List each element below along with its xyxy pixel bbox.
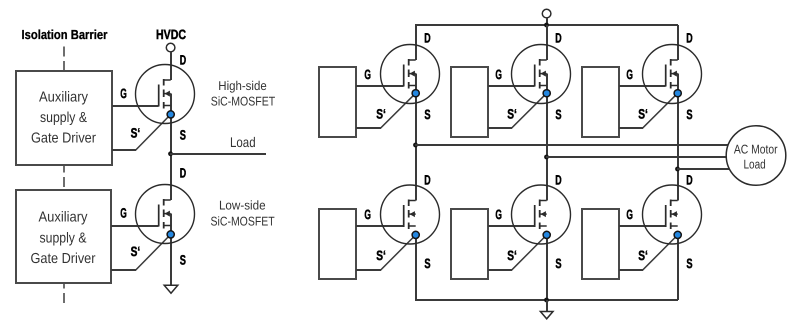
svg-text:S‘: S‘ [376, 106, 386, 121]
node: load junction [168, 151, 173, 156]
isolation barrier dashed line [63, 47, 65, 304]
wire: load output [170, 153, 266, 155]
svg-text:G: G [364, 67, 371, 82]
junction: DC+ on top rail [544, 23, 549, 28]
svg-text:S‘: S‘ [507, 106, 517, 121]
wire: Kelvin source S' of Q6 (diagonal) [511, 235, 546, 270]
gate driver box for Q5 (high side, phase B) [451, 67, 488, 137]
svg-text:SiC-MOSFET: SiC-MOSFET [211, 214, 275, 228]
gate driver box for Q8 (low side, phase C) [582, 209, 619, 279]
wire: top DC rail with corner drops [415, 25, 417, 60]
wire: Kelvin source S' of Q8 (horizontal) [619, 269, 643, 271]
wire: Kelvin source S' of Q7 (diagonal) [642, 93, 677, 128]
svg-text:S: S [424, 107, 430, 122]
svg-text:Load: Load [230, 134, 256, 150]
transistor Q4: low-side SiC-MOSFET phase A [381, 185, 440, 244]
wire: gate of Q4 [356, 225, 404, 227]
svg-text:S‘: S‘ [376, 248, 386, 263]
svg-text:Isolation Barrier: Isolation Barrier [22, 27, 108, 42]
node S' of Q2 (Kelvin source node, blue dot) [167, 231, 174, 238]
svg-text:S‘: S‘ [131, 126, 141, 141]
svg-text:High-side: High-side [218, 79, 266, 93]
svg-text:G: G [495, 67, 502, 82]
svg-text:S: S [686, 107, 692, 122]
svg-text:S: S [180, 128, 186, 143]
wire: Kelvin source S' of Q7 (horizontal) [619, 127, 643, 129]
wire: gate of Q8 [619, 225, 666, 227]
svg-text:Gate Driver: Gate Driver [31, 131, 96, 147]
svg-text:D: D [555, 173, 562, 188]
wire: U2 Kelvin source return to Q2 S' (horizontal) [111, 269, 136, 271]
gate driver U2: auxiliary supply & gate driver (low side) [16, 190, 111, 283]
wire: Kelvin source S' of Q5 (horizontal) [488, 127, 512, 129]
wire: phase A to AC motor [415, 144, 730, 146]
ground (left) [164, 285, 178, 293]
svg-text:Auxiliary: Auxiliary [39, 90, 89, 106]
wire: Kelvin source S' of Q3 (diagonal) [380, 93, 415, 128]
svg-text:S‘: S‘ [131, 244, 141, 259]
wire: DC+ terminal to top rail [546, 18, 548, 25]
wire: Q1 source down through Load node to Q2 drain [170, 94, 172, 200]
svg-text:S‘: S‘ [638, 248, 648, 263]
node S' of Q1 (Kelvin source node, blue dot) [167, 111, 174, 118]
wire: gate of Q7 [619, 85, 666, 87]
node S' of Q4 (Kelvin source node, blue dot) [412, 231, 419, 238]
junction: ground node on bottom rail [544, 298, 549, 303]
wire: Kelvin source S' of Q4 (diagonal) [380, 235, 415, 270]
svg-text:S: S [555, 107, 561, 122]
junction: phase B output node [544, 155, 549, 160]
wire: U2 Kelvin source return to Q2 S' (diagonal) [135, 234, 170, 270]
svg-text:D: D [555, 31, 562, 46]
wire: phase C mid-leg (source of Q7 to drain of Q8) [677, 74, 679, 201]
node S' of Q3 (Kelvin source node, blue dot) [412, 90, 419, 97]
svg-text:G: G [120, 206, 127, 221]
wire: gate of Q6 [488, 225, 535, 227]
HVDC terminal [166, 43, 175, 52]
transistor Q2: low-side SiC-MOSFET [136, 185, 195, 244]
svg-text:HVDC: HVDC [156, 27, 186, 42]
junction: phase C output node [675, 167, 680, 172]
wire: U1 Kelvin source return to Q1 S' (diagonal) [135, 114, 170, 150]
gate driver box for Q3 (high side, phase A) [319, 67, 356, 137]
svg-text:S: S [424, 256, 430, 271]
transistor Q8: low-side SiC-MOSFET phase C [643, 185, 702, 244]
wire: Kelvin source S' of Q5 (diagonal) [511, 93, 546, 128]
wire: middle leg drain drop [546, 25, 548, 60]
wire: Kelvin source S' of Q4 (horizontal) [356, 269, 381, 271]
svg-text:D: D [686, 31, 693, 46]
svg-text:S: S [555, 256, 561, 271]
svg-text:S‘: S‘ [638, 106, 648, 121]
svg-text:G: G [495, 207, 502, 222]
transistor Q5: high-side SiC-MOSFET phase B [512, 45, 571, 104]
svg-text:S: S [686, 256, 692, 271]
svg-text:Low-side: Low-side [219, 199, 266, 213]
wire: phase B to AC motor [546, 156, 730, 158]
svg-text:D: D [180, 52, 187, 67]
svg-text:Load: Load [743, 158, 765, 172]
svg-text:G: G [120, 86, 127, 101]
wire: Kelvin source S' of Q8 (diagonal) [642, 235, 677, 270]
wire: U2 gate output to Q2 gate [111, 225, 159, 227]
motor M1: AC motor load [726, 126, 786, 186]
transistor Q7: high-side SiC-MOSFET phase C [643, 45, 702, 104]
gate driver U1: auxiliary supply & gate driver (high side) [16, 71, 112, 165]
wire: Kelvin source S' of Q6 (horizontal) [488, 269, 512, 271]
transistor Q1: high-side SiC-MOSFET [136, 65, 195, 124]
svg-text:supply &: supply & [40, 231, 87, 247]
wire: bottom DC rail with corner rises [415, 235, 417, 300]
wire: HVDC terminal to Q1 drain [170, 52, 172, 80]
node S' of Q5 (Kelvin source node, blue dot) [543, 90, 550, 97]
svg-text:Gate Driver: Gate Driver [31, 251, 96, 267]
wire: phase C to AC motor [677, 168, 730, 170]
wire: gate of Q3 [356, 85, 404, 87]
node S' of Q6 (Kelvin source node, blue dot) [543, 231, 550, 238]
wire: Kelvin source S' of Q3 (horizontal) [356, 127, 381, 129]
svg-text:G: G [626, 67, 633, 82]
DC+ terminal (right) [542, 9, 551, 18]
node S' of Q8 (Kelvin source node, blue dot) [674, 231, 681, 238]
wire: gate of Q5 [488, 85, 535, 87]
ground (right) [540, 312, 553, 319]
label: High-side SiC-MOSFET [211, 79, 276, 108]
wire: phase B mid-leg (source of Q5 to drain of Q6) [546, 74, 548, 201]
wire: middle leg source to bottom rail [546, 235, 548, 300]
svg-text:Auxiliary: Auxiliary [39, 210, 89, 226]
transistor Q6: low-side SiC-MOSFET phase B [512, 185, 571, 244]
gate driver box for Q7 (high side, phase C) [582, 67, 619, 137]
svg-text:supply &: supply & [40, 110, 87, 126]
transistor Q3: high-side SiC-MOSFET phase A [381, 45, 440, 104]
svg-text:SiC-MOSFET: SiC-MOSFET [211, 94, 276, 108]
svg-text:AC Motor: AC Motor [734, 143, 778, 157]
svg-text:D: D [180, 166, 187, 181]
junction: phase A output node [413, 143, 418, 148]
wire: Q2 source down to ground [170, 214, 172, 286]
svg-text:D: D [424, 31, 431, 46]
wire: phase A mid-leg (source of Q3 to drain of Q4) [415, 74, 417, 201]
svg-text:S: S [180, 253, 186, 268]
label: Low-side SiC-MOSFET [211, 199, 275, 229]
gate driver box for Q4 (low side, phase A) [319, 209, 356, 279]
svg-text:G: G [626, 207, 633, 222]
wire: U1 gate output to Q1 gate [112, 105, 159, 107]
svg-text:S‘: S‘ [507, 248, 517, 263]
gate driver box for Q6 (low side, phase B) [451, 209, 488, 279]
node S' of Q7 (Kelvin source node, blue dot) [674, 90, 681, 97]
svg-text:D: D [424, 173, 431, 188]
svg-text:D: D [686, 173, 693, 188]
wire: U1 Kelvin source return to Q1 S' (horizontal) [112, 149, 136, 151]
wire: bottom rail to ground [546, 300, 548, 312]
svg-text:G: G [364, 207, 371, 222]
